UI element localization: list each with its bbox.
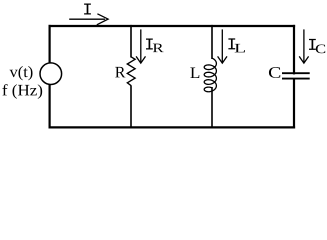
- inductor L coil: [204, 58, 216, 92]
- label I_L: [228, 38, 235, 49]
- svg-text:L: L: [190, 65, 201, 82]
- arrow: I_C: [299, 29, 308, 63]
- wire: right branch (capacitor leads): [293, 25, 295, 129]
- wire: resistor branch upper lead: [130, 25, 132, 58]
- wire: left branch (source leads): [48, 25, 50, 129]
- arrow: I_R: [136, 29, 145, 63]
- capacitor C plates: [282, 72, 310, 74]
- svg-text:v(t): v(t): [9, 64, 33, 81]
- label I_C: [309, 39, 316, 50]
- wire: resistor branch lower lead: [130, 85, 132, 128]
- label I (source current): [84, 4, 91, 15]
- voltage source circle: [40, 63, 62, 85]
- capacitor gap: [289, 74, 299, 78]
- wire: top bus: [49, 25, 296, 27]
- svg-text:C: C: [268, 65, 281, 82]
- wire: bottom bus: [49, 126, 296, 128]
- wire: inductor branch upper lead: [211, 25, 213, 59]
- wire: inductor branch lower lead: [211, 87, 213, 129]
- arrow: I direction: [69, 14, 108, 25]
- svg-text:R: R: [115, 64, 126, 81]
- arrow: I_L: [218, 29, 227, 63]
- svg-text:f (Hz): f (Hz): [2, 82, 43, 99]
- svg-text:R: R: [152, 40, 164, 55]
- svg-text:C: C: [315, 41, 326, 56]
- svg-text:L: L: [234, 40, 246, 55]
- resistor R zigzag: [127, 57, 135, 86]
- label I_R: [146, 39, 153, 50]
